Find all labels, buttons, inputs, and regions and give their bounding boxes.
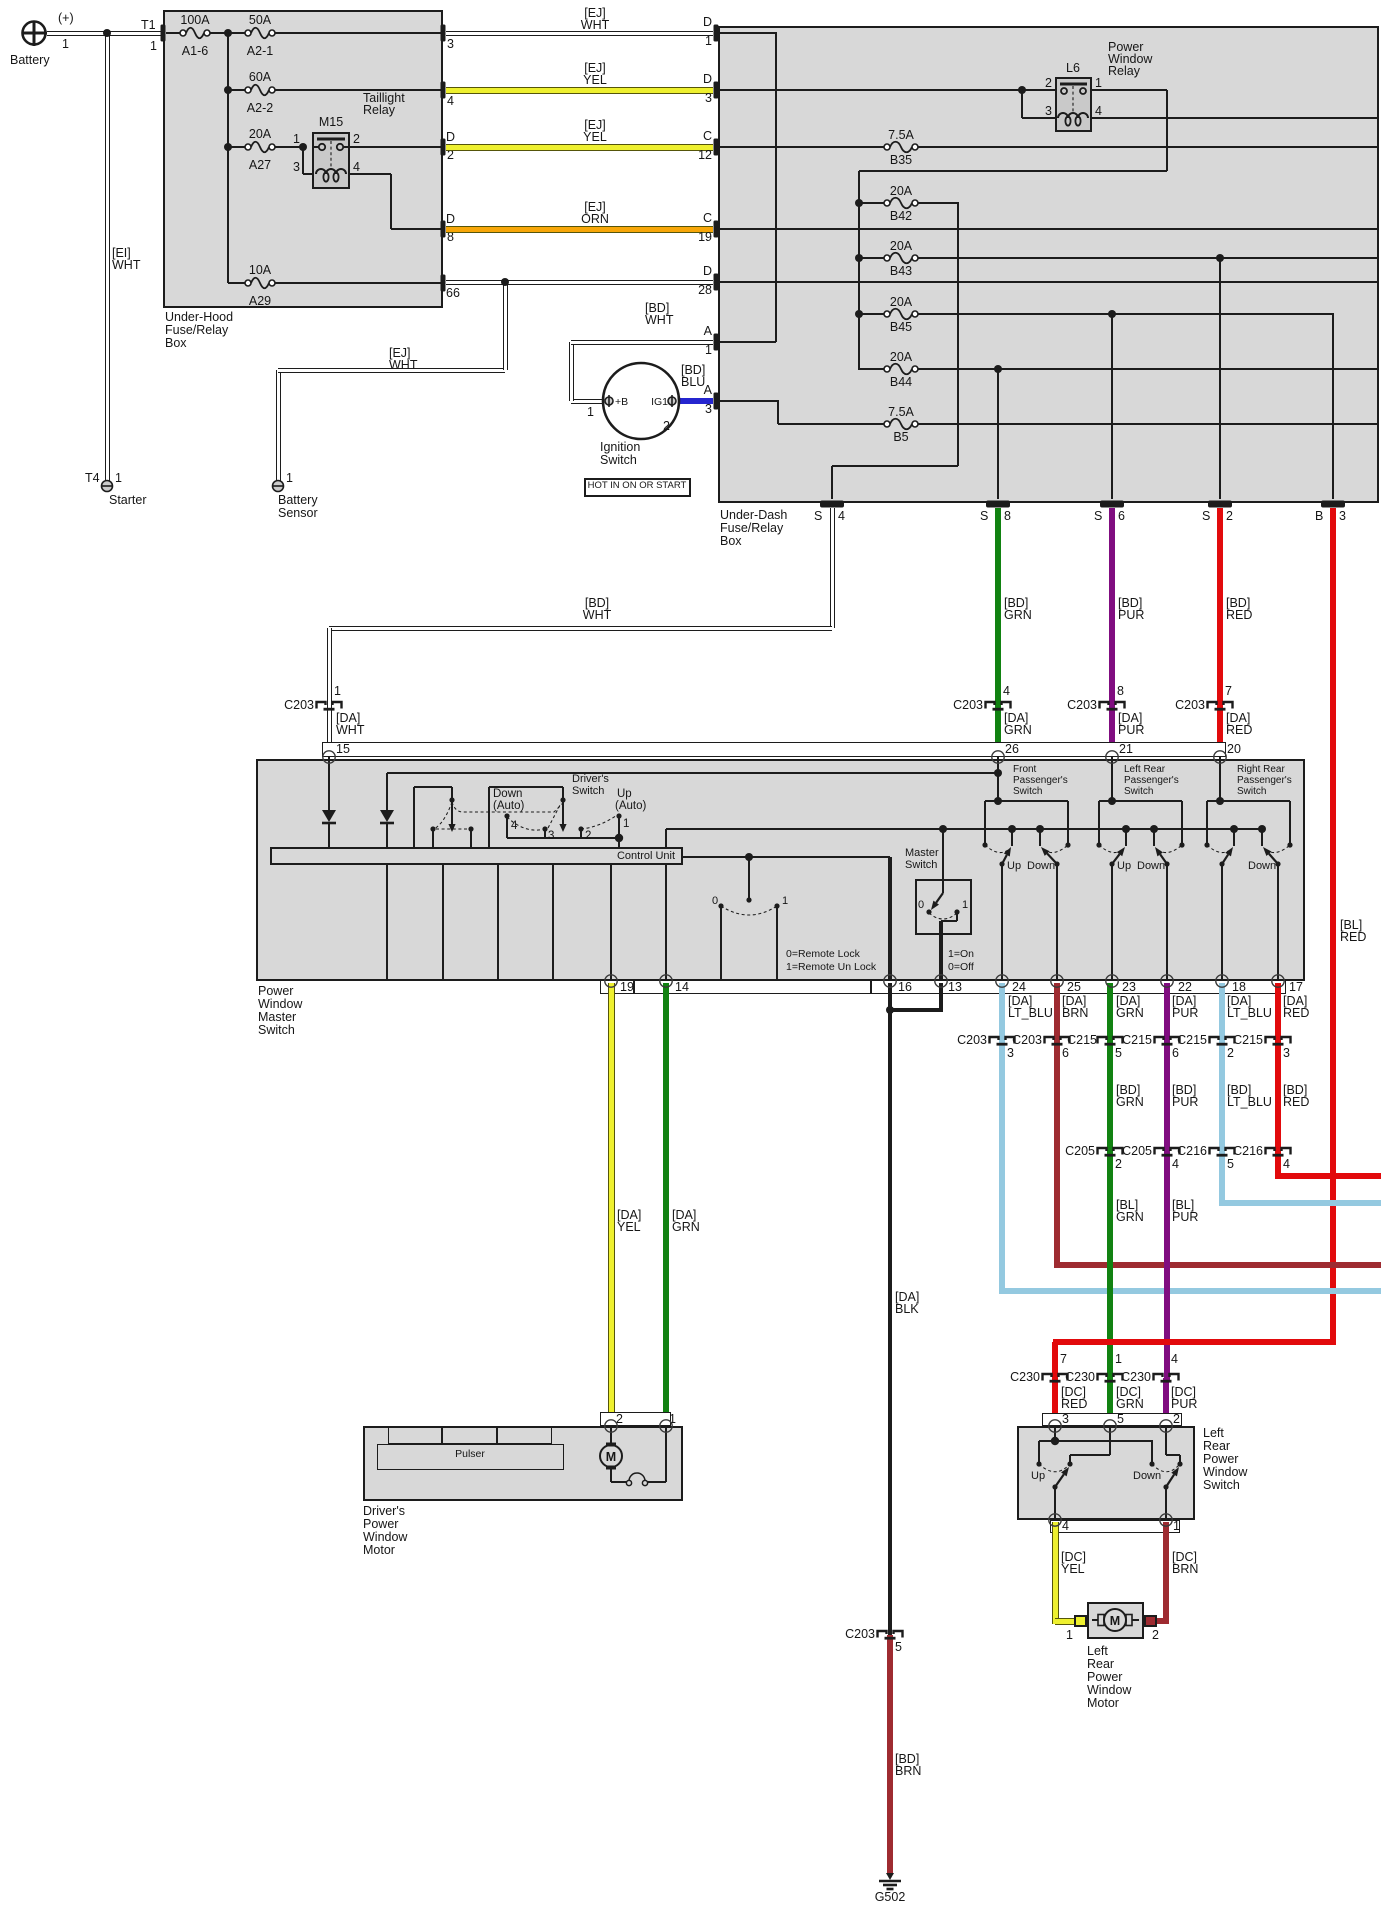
wire S2 drop (1219, 258, 1221, 499)
connector D28 tick (714, 274, 719, 291)
right rear passenger switch right contact dot (1287, 842, 1292, 847)
wire control unit right out (683, 856, 890, 858)
label [BD] red (1226, 597, 1250, 611)
wire LR down contact stub (1179, 1455, 1181, 1464)
wire [DC] RED (1052, 1378, 1058, 1424)
wire C12 to B35 (718, 146, 884, 148)
wire LR up output (1054, 1487, 1056, 1520)
junction 66-row tap (501, 278, 509, 286)
wire DM jumper right (646, 1481, 666, 1483)
power window relay L6 body (1055, 77, 1092, 132)
wire M15 pin 4 (350, 173, 391, 175)
under-hood box label L1 (165, 311, 233, 325)
connector pin 3 tick (441, 25, 446, 42)
label [EJ] row2 (395, 62, 795, 76)
down auto label L1 (493, 788, 522, 801)
wire LR right contact (1151, 1441, 1153, 1464)
arrow contact left B (448, 824, 455, 832)
label WHT da (336, 724, 364, 738)
wire [BD] GRN drop (995, 508, 1001, 706)
LR pin 5 label (1117, 1413, 1124, 1427)
wire LR contact bar (1039, 1440, 1153, 1442)
C205-4 pin number (1172, 1158, 1179, 1172)
wire right rear passenger switch pole2 stub (1261, 829, 1263, 846)
pin 17 label (1289, 981, 1303, 995)
label WHT ign (645, 314, 673, 328)
wire [BL] RED long drop (1330, 508, 1336, 1345)
wire front passenger switch right contact (1067, 801, 1069, 845)
pole 2 dot (578, 826, 583, 831)
connector D1 tick (714, 25, 719, 42)
label [BD] grn (1004, 597, 1028, 611)
wire right rear passenger switch up output (1221, 864, 1223, 981)
connector C230 pin7 (1043, 1374, 1068, 1381)
front passenger switch right contact dot (1065, 842, 1070, 847)
M15 label (131, 116, 531, 130)
wire right rear passenger switch left contact (1206, 801, 1208, 845)
wire pin17 RED upper (1275, 983, 1281, 1041)
master contact 1 (954, 909, 959, 914)
wire C203-1 upper (327, 628, 332, 706)
connector C215 pin3 (1266, 1037, 1291, 1044)
L6 label (873, 62, 1273, 76)
label RED da20 (1226, 724, 1252, 738)
junction bus B43 (855, 254, 863, 262)
pin circle 23 (1106, 975, 1118, 987)
wire A27 to relay M15 (275, 146, 303, 148)
connector C215 pin5 (1098, 1037, 1123, 1044)
wire left rear passenger switch down output (1166, 864, 1168, 981)
M15 pin 4 (353, 161, 360, 175)
wire [BD] BRN ground (887, 1635, 893, 1873)
wire to L6 pin 2 (1022, 89, 1055, 91)
pole 1 dot (616, 813, 621, 818)
driver motor name L3 (363, 1531, 407, 1545)
driver motor name L1 (363, 1505, 405, 1519)
wire pin 13 column (939, 921, 943, 981)
right rear passenger label L1 (1237, 764, 1285, 775)
label YEL row2 (395, 74, 795, 88)
junction left rear passenger switch feed (1108, 797, 1116, 805)
label A1-6 (0, 45, 395, 59)
label PUR 22 (1172, 1007, 1198, 1021)
right rear passenger label L3 (1237, 786, 1266, 797)
label BLK (895, 1303, 919, 1317)
label [DC] red (1061, 1386, 1086, 1400)
wire master switch feed (942, 829, 944, 893)
hot in on label (437, 481, 837, 492)
junction master switch feed (939, 825, 947, 833)
wire remote lock arm (748, 857, 750, 901)
under-hood box label L3 (165, 337, 187, 351)
pin 14 label (675, 981, 689, 995)
LR motor left terminal (1074, 1615, 1087, 1627)
battery pin 1 label (62, 38, 69, 52)
C203-6 label (642, 1034, 1042, 1048)
C203-1 pin number (334, 685, 341, 699)
pin circle 16 (884, 975, 896, 987)
wire S4 white drop (830, 508, 835, 628)
wire S4 horizontal (832, 465, 958, 467)
pin D2 number (447, 149, 454, 163)
wire L6 coil drop (1021, 90, 1023, 118)
S4 number (838, 510, 845, 524)
wire right rear passenger switch down output (1277, 864, 1279, 981)
wire [BD] WHT to A1 (571, 340, 713, 345)
label GRN bd23 (1116, 1096, 1144, 1110)
label [BD] pur (1118, 597, 1142, 611)
under-dash box label L3 (720, 535, 742, 549)
pin 18 label (1232, 981, 1246, 995)
ignition +B terminal (605, 395, 613, 407)
wire pole 3 (544, 829, 546, 838)
connector A1 tick (714, 334, 719, 351)
left rear passenger switch down elbow dot (1164, 861, 1169, 866)
wire L6 pin4 out (1092, 117, 1379, 119)
wire [EJ] YEL row2 (446, 87, 713, 94)
C230-4 pin number (1171, 1353, 1178, 1367)
diode D1 master switch (322, 810, 336, 823)
wire stub contact (432, 831, 434, 847)
wire LR pin5 in (1109, 1426, 1111, 1455)
connector B3 tick (1321, 501, 1345, 508)
front passenger label L3 (1013, 786, 1042, 797)
label [DA] 25 (1062, 995, 1086, 1009)
junction LR feed (1051, 1437, 1059, 1445)
junction 20A row (224, 143, 232, 151)
wire pole1 to control unit (618, 838, 620, 847)
pin circle DM2 (605, 1420, 617, 1432)
label [DA] red20 (1226, 712, 1250, 726)
label GRN 23 (1116, 1007, 1144, 1021)
wire LR pin5 left (1070, 1454, 1110, 1456)
label A29 (60, 295, 460, 309)
LR motor M label (1110, 1614, 1120, 1628)
C203-5 pin number (895, 1641, 902, 1655)
C203-3 label (587, 1034, 987, 1048)
wire 16-13 join (888, 1008, 943, 1012)
wire L6 pin1 out (1092, 89, 1167, 91)
C230-7 label (640, 1371, 1040, 1385)
dashed right rear passenger switch arc left (1207, 845, 1230, 853)
battery B1 symbol (22, 21, 47, 46)
pin A1 letter (312, 325, 712, 339)
right rear passenger switch up elbow dot (1219, 861, 1224, 866)
pin D28 number (312, 284, 712, 298)
under-dash box label L1 (720, 509, 787, 523)
wire pin25 BRN upper (1054, 983, 1060, 1041)
wire pin23 GRN mid (1107, 1041, 1113, 1152)
relay L6 plunger dashed (1072, 86, 1074, 112)
wire to B5 (778, 423, 884, 425)
pin C19 letter (312, 212, 712, 226)
connector T1 tick (161, 25, 166, 42)
wire D3 row (718, 89, 1022, 91)
label [DA] grn14 (672, 1209, 696, 1223)
LR down elbow (1163, 1484, 1168, 1489)
wire DM pin1 down (665, 1426, 667, 1482)
C203-5 label (475, 1628, 875, 1642)
front passenger switch up elbow dot (999, 861, 1004, 866)
wire B45 out (918, 313, 1334, 315)
LR down contact dot (1177, 1461, 1182, 1466)
left rear switch name L2 (1203, 1440, 1230, 1454)
junction front passenger switch pole2 (1036, 825, 1044, 833)
wire C203-1 lower (327, 706, 332, 757)
battery sensor wire horizontal (278, 368, 505, 373)
left rear motor name L5 (1087, 1697, 1119, 1711)
relay L6 contacts (1061, 88, 1086, 94)
connector S4 tick (820, 501, 844, 508)
wire pin13 below (939, 983, 943, 1011)
LR pin 4 label (1062, 1520, 1069, 1534)
starter pin 1 label (115, 472, 122, 486)
wire left rear passenger switch pole1 stub (1125, 829, 1127, 846)
left rear motor name L3 (1087, 1671, 1122, 1685)
label YEL row3 (395, 131, 795, 145)
dashed linkage arc 1 (434, 802, 452, 829)
dashed linkage mid (436, 828, 471, 830)
right rear passenger switch up arm (1222, 847, 1233, 864)
left rear passenger switch up arm (1112, 847, 1125, 864)
wire battery to T1 (47, 31, 161, 36)
label [DA] 22 (1172, 995, 1196, 1009)
LR up arm (1055, 1467, 1069, 1487)
master switch name L2 (258, 998, 302, 1012)
connector C215 pin6 (1155, 1037, 1180, 1044)
pulser tab 1 (388, 1426, 442, 1444)
label [DA] 23 (1116, 995, 1140, 1009)
wire B5 out (918, 423, 1379, 425)
wire LR pin2 in (1165, 1426, 1167, 1455)
wire switch bus (666, 828, 1263, 830)
wire front passenger switch pole1 stub (1011, 829, 1013, 846)
wire [EJ] YEL row3 (446, 144, 713, 151)
wire A1 row (718, 341, 776, 343)
pin C12 number (312, 149, 712, 163)
C215-2 pin number (1227, 1047, 1234, 1061)
wire right rear passenger switch bracket (1207, 800, 1290, 802)
label LT_BLU 18 (1227, 1007, 1272, 1021)
label GRN bl23 (1116, 1211, 1144, 1225)
T1 label (141, 19, 156, 33)
C216-4 pin number (1283, 1158, 1290, 1172)
wire [DC] PUR (1163, 1378, 1169, 1424)
label [BD] wht2 (397, 597, 797, 611)
strip divider 1 (633, 980, 635, 994)
wire [DC] YEL horizontal (1055, 1618, 1076, 1625)
wire pin22 PUR mid (1164, 1041, 1170, 1152)
fuse 20A B42 (884, 198, 918, 209)
connector S2 tick (1208, 501, 1232, 508)
pole 4 label (511, 820, 517, 833)
wire front passenger switch down output (1056, 864, 1058, 981)
wire remote contact 1 (776, 906, 778, 981)
driver motor top strip (600, 1412, 671, 1426)
wire below bar 3 (497, 865, 499, 981)
battery sensor terminal (273, 481, 284, 492)
C215-2 label (807, 1034, 1207, 1048)
C215-5 label (697, 1034, 1097, 1048)
pin circle LR4 (1049, 1514, 1061, 1526)
fuse 7.5A B5 (884, 419, 918, 430)
junction S2 tap (1216, 254, 1224, 262)
starter name label (109, 494, 147, 508)
ground G502 (879, 1873, 901, 1889)
connector C203 pin3 (990, 1037, 1015, 1044)
diode D2 master switch (380, 810, 394, 823)
L6 pin 3 (652, 105, 1052, 119)
wire bracket1 right leg (451, 787, 453, 824)
wire diode2 to control unit (386, 823, 388, 847)
C205-2 label (695, 1145, 1095, 1159)
LR pin 2 label (1173, 1413, 1180, 1427)
left rear passenger switch down label (1137, 860, 1165, 872)
wire [BL] RED horizontal (1053, 1339, 1336, 1345)
under-dash box label L2 (720, 522, 783, 536)
wire [EJ] ORN row4 (446, 226, 713, 233)
L6 pin 1 (1095, 77, 1102, 91)
pin circle 25 (1051, 975, 1063, 987)
wire RED 17 to right (1278, 1173, 1381, 1179)
junction S8 tap (994, 365, 1002, 373)
left rear motor name L4 (1087, 1684, 1131, 1698)
driver's switch label L1 (572, 773, 609, 785)
label [BD] 23 (1116, 1084, 1140, 1098)
T4 label (85, 472, 100, 486)
master switch label L1 (905, 847, 939, 859)
connector C19 tick (714, 221, 719, 238)
wire B43 out (918, 257, 1379, 259)
pin circle 17 (1272, 975, 1284, 987)
connector D3 tick (714, 82, 719, 99)
control unit label (446, 850, 846, 862)
dashed front passenger switch arc left (985, 845, 1008, 853)
pin circle 13 (935, 975, 947, 987)
dashed front passenger switch arc right (1044, 845, 1068, 853)
pin D1 number (312, 35, 712, 49)
label BRN dc (1172, 1563, 1198, 1577)
battery sensor pin 1 (286, 472, 293, 486)
junction front passenger switch feed (994, 797, 1002, 805)
left rear switch name L4 (1203, 1466, 1247, 1480)
remote 1 label (782, 895, 788, 907)
control unit bar (270, 847, 683, 865)
wire LR pin3 in (1054, 1426, 1056, 1441)
right rear passenger switch down arm (1263, 847, 1278, 864)
right rear passenger switch left contact dot (1204, 842, 1209, 847)
label [DA] wht (336, 712, 360, 726)
right rear passenger switch down label (1248, 860, 1276, 872)
pole 2 label (585, 830, 591, 843)
wire right rear passenger switch pole1 stub (1233, 829, 1235, 846)
S8 number (1004, 510, 1011, 524)
C216-4 label (863, 1145, 1263, 1159)
strip divider 2 (870, 980, 872, 994)
wire control unit bus riser (665, 829, 667, 847)
label B44 (701, 376, 1101, 390)
label ORN row4 (395, 213, 795, 227)
wire left rear passenger switch bracket (1099, 800, 1182, 802)
dashed right rear passenger switch arc right (1266, 845, 1290, 853)
pin circle 21 (1106, 751, 1118, 763)
connector A3 tick (714, 393, 719, 410)
pulser tab 3 (497, 1426, 552, 1444)
front passenger switch down arm (1041, 847, 1057, 864)
B3 letter (1315, 510, 1323, 524)
pin D3 number (312, 92, 712, 106)
pin circle DM1 (660, 1420, 672, 1432)
label BRN 25 (1062, 1007, 1088, 1021)
wire DM motor down (610, 1469, 612, 1482)
label BRN bd (895, 1765, 921, 1779)
fuse 60A A2-2 (245, 85, 275, 96)
left rear switch bottom strip (1050, 1520, 1180, 1533)
pin D3 letter (312, 73, 712, 87)
ignition name L2 (600, 454, 637, 468)
label RED bd (1226, 609, 1252, 623)
wire bus to B44 (859, 368, 884, 370)
C216-5 pin number (1227, 1158, 1234, 1172)
wire bus to fuse A27 (228, 146, 245, 148)
wire left rear passenger switch feed (1111, 757, 1113, 801)
wire pole 4 (506, 816, 508, 838)
driver motor symbol (600, 1443, 622, 1470)
wire diode2 top (386, 773, 388, 810)
C203-8 pin number (1117, 685, 1124, 699)
junction left rear passenger switch pole1 (1122, 825, 1130, 833)
label 20A B44 (701, 351, 1101, 365)
pin circle 26 (992, 751, 1004, 763)
left rear passenger switch down arm (1155, 847, 1167, 864)
wire pin18 LT_BLU upper (1219, 983, 1225, 1041)
wire pin 16 column (888, 857, 892, 981)
connector C203 pin4 (986, 702, 1011, 709)
wire S6 drop (1111, 314, 1113, 499)
label GRN bd (1004, 609, 1032, 623)
label GRN dc (1116, 1398, 1144, 1412)
remote lock contact 0 (718, 903, 723, 908)
junction L6 coil tap (1018, 86, 1026, 94)
wire M15 pin 2 to D2 (350, 146, 441, 148)
C230-4 label (751, 1371, 1151, 1385)
connector C216 pin5 (1210, 1148, 1235, 1155)
wire front passenger switch bracket (985, 800, 1068, 802)
C203-7 pin number (1225, 685, 1232, 699)
connector C203 pin6 (1045, 1037, 1070, 1044)
G502 label (690, 1891, 1090, 1905)
label 10A (60, 264, 460, 278)
HOT IN ON OR START box (584, 478, 691, 497)
label [BD] 22 (1172, 1084, 1196, 1098)
pin circle LR2 (1160, 1420, 1172, 1432)
wire bus to fuse A2-2 (228, 89, 245, 91)
wire pin23 GRN upper (1107, 983, 1113, 1041)
wire D1 to A1 vertical (775, 33, 777, 342)
wire left rear passenger switch right contact (1181, 801, 1183, 845)
label YEL dc (1061, 1563, 1085, 1577)
left rear switch top strip (1042, 1413, 1182, 1426)
connector C230 pin1 (1098, 1374, 1123, 1381)
relay M15 plunger dashed (330, 141, 332, 168)
pin C12 letter (312, 130, 712, 144)
label [BD] brn (895, 1753, 919, 1767)
wire WHT row5 (446, 280, 713, 285)
label RED 17 (1283, 1007, 1309, 1021)
wire [DA] BLK (888, 1010, 892, 1635)
label GRN da26 (1004, 724, 1032, 738)
master switch name L4 (258, 1024, 295, 1038)
